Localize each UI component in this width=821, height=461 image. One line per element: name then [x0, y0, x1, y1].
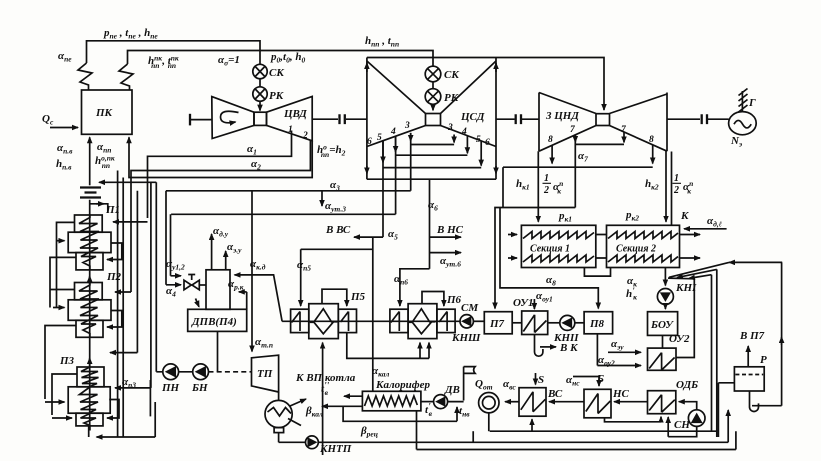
svg-text:ТП: ТП	[257, 368, 273, 380]
svg-text:ДВ: ДВ	[444, 384, 460, 396]
svg-text:6: 6	[485, 138, 490, 148]
svg-text:В П7: В П7	[739, 330, 765, 342]
svg-text:5: 5	[476, 135, 481, 145]
svg-text:П8: П8	[589, 318, 605, 330]
svg-text:2: 2	[543, 185, 549, 196]
svg-text:3 ЦНД: 3 ЦНД	[545, 110, 579, 122]
svg-text:2: 2	[673, 185, 679, 196]
svg-text:Р: Р	[760, 354, 767, 366]
svg-text:В НС: В НС	[436, 224, 464, 236]
svg-text:П3: П3	[59, 355, 75, 367]
svg-text:Секция 2: Секция 2	[616, 244, 656, 255]
svg-text:П7: П7	[489, 318, 505, 330]
svg-text:Г: Г	[748, 97, 756, 109]
svg-text:ЦВД: ЦВД	[283, 108, 307, 120]
svg-text:РК: РК	[269, 90, 284, 102]
svg-text:БН: БН	[191, 382, 208, 394]
svg-text:КНI: КНI	[675, 282, 697, 294]
svg-text:П5: П5	[350, 291, 366, 303]
svg-text:Калорифер: Калорифер	[375, 379, 430, 391]
svg-text:КНШ: КНШ	[451, 332, 481, 344]
svg-text:8: 8	[649, 135, 654, 145]
svg-text:ДПВ(П4): ДПВ(П4)	[191, 316, 237, 328]
svg-text:ασ=1: ασ=1	[218, 54, 240, 68]
svg-text:1: 1	[544, 173, 549, 184]
svg-text:П2: П2	[106, 271, 122, 283]
svg-text:ПК: ПК	[95, 107, 113, 119]
svg-text:ОДБ: ОДБ	[676, 379, 698, 391]
svg-text:К: К	[680, 210, 689, 222]
svg-text:В ВС: В ВС	[325, 224, 351, 236]
svg-text:ОУ2: ОУ2	[669, 333, 690, 345]
svg-text:1: 1	[288, 125, 293, 135]
svg-text:НС: НС	[612, 388, 630, 400]
svg-text:КНII: КНII	[553, 332, 579, 344]
svg-text:ПН: ПН	[161, 382, 180, 394]
svg-text:СК: СК	[269, 67, 284, 79]
svg-text:КНТП: КНТП	[319, 443, 352, 455]
svg-text:S: S	[538, 374, 544, 386]
svg-text:5: 5	[377, 133, 382, 143]
svg-text:3: 3	[404, 121, 410, 131]
svg-text:ЦСД: ЦСД	[460, 111, 485, 123]
svg-text:6: 6	[367, 137, 372, 147]
svg-text:1: 1	[674, 173, 679, 184]
svg-text:СК: СК	[444, 69, 459, 81]
svg-text:2: 2	[302, 131, 308, 141]
svg-text:4: 4	[390, 127, 396, 137]
svg-text:БОУ: БОУ	[650, 319, 674, 331]
svg-text:РК: РК	[444, 92, 459, 104]
svg-text:4: 4	[461, 127, 467, 137]
svg-text:Б: Б	[596, 373, 604, 385]
svg-text:СМ: СМ	[461, 302, 479, 314]
svg-text:СН: СН	[674, 419, 690, 431]
svg-text:3: 3	[447, 123, 453, 133]
svg-text:Секция 1: Секция 1	[530, 244, 570, 255]
svg-text:8: 8	[548, 135, 553, 145]
svg-text:П6: П6	[446, 294, 462, 306]
svg-text:ОУ1: ОУ1	[513, 297, 533, 309]
svg-text:ВС: ВС	[547, 388, 563, 400]
svg-text:П1: П1	[105, 204, 120, 216]
